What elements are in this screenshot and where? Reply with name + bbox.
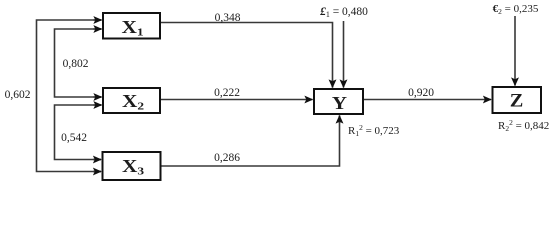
path arrow X3 to Y (under the bottom) [161,116,340,167]
error arrow e2 into Z [514,16,516,86]
wire: correlation bracket X1-X3 [37,20,102,172]
svg-text:£1 = 0,480: £1 = 0,480 [319,6,368,19]
svg-text:Y: Y [332,95,347,114]
svg-text:0,348: 0,348 [215,12,241,24]
path arrow X1 to Y (over the top) [160,23,333,88]
path arrow X2 to Y [160,99,313,101]
wire: correlation bracket X2-X3 [55,105,102,160]
svg-text:0,802: 0,802 [63,58,89,70]
path arrow Y to Z [363,99,491,101]
svg-text:0,222: 0,222 [214,87,240,99]
box Z [493,87,542,113]
svg-text:0,286: 0,286 [214,152,240,164]
svg-text:0,542: 0,542 [61,132,87,144]
svg-text:€2 = 0,235: €2 = 0,235 [493,3,539,16]
box Y [314,89,363,114]
svg-text:0,920: 0,920 [408,87,434,99]
error arrow e1 into Y [343,21,345,88]
box X3 [103,152,161,180]
box X2 [103,88,160,113]
svg-text:0,602: 0,602 [5,89,31,101]
box X1 [103,13,160,39]
wire: correlation bracket X1-X2 [55,29,102,97]
svg-text:R22 = 0,842: R22 = 0,842 [498,118,549,133]
svg-text:Z: Z [510,91,524,111]
svg-text:R12 = 0,723: R12 = 0,723 [348,123,400,138]
